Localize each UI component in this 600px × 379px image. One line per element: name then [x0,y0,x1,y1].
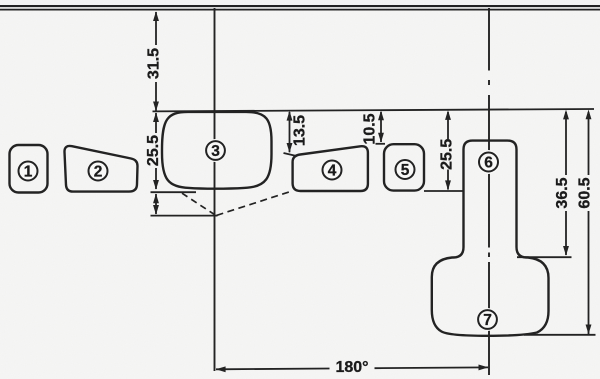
svg-text:6: 6 [484,155,493,172]
svg-text:180°: 180° [335,359,368,376]
svg-text:10.5: 10.5 [362,113,379,144]
dimension 25.5 left [153,112,159,190]
node 4 circled number [323,161,342,180]
node 7 circled number [476,308,499,331]
svg-text:1: 1 [24,164,33,181]
node 5 circled number [396,160,415,179]
svg-text:36.5: 36.5 [554,177,571,208]
node 1 circled number [19,162,38,181]
node 6 circled number [477,150,501,174]
shape 6-7 outline [432,141,549,336]
dimension 10.5 [376,110,386,143]
dashed line V left [182,193,216,215]
svg-text:5: 5 [401,162,410,179]
shape 5 outline [384,144,424,190]
dimension 13.5 [284,111,296,156]
dimension 60.5 [524,110,596,335]
dimension 25.5 right [424,110,465,191]
node 3 circled number [204,139,227,162]
center line A (vertical, x=214.5) [214,8,216,371]
center line B (vertical dash-dot, x=489) [488,8,490,375]
dashed line V right [217,191,293,215]
horizontal reference line y=110.8 [153,109,595,111]
svg-text:25.5: 25.5 [438,139,455,170]
svg-text:60.5: 60.5 [577,177,594,208]
top wall line upper [0,5,600,7]
extension line at shape3 bottom [151,191,197,193]
shape 4 outline [293,146,368,191]
svg-text:2: 2 [94,164,103,181]
svg-text:31.5: 31.5 [145,48,162,79]
shape 1 outline [10,145,48,193]
small unlabeled dimension [153,194,159,215]
shape 2 outline [64,146,137,192]
extension line at V point level [151,215,218,217]
dimension 36.5 [517,110,572,258]
node 2 circled number [89,162,108,181]
svg-text:25.5: 25.5 [145,135,162,166]
svg-text:3: 3 [211,143,220,160]
svg-text:13.5: 13.5 [292,115,309,146]
top wall line lower [0,9,600,11]
svg-text:7: 7 [483,312,492,329]
dimension 31.5 [153,11,159,111]
dimension 180 degrees [216,365,489,373]
svg-text:4: 4 [328,163,337,180]
shape 3 outline [162,112,272,189]
